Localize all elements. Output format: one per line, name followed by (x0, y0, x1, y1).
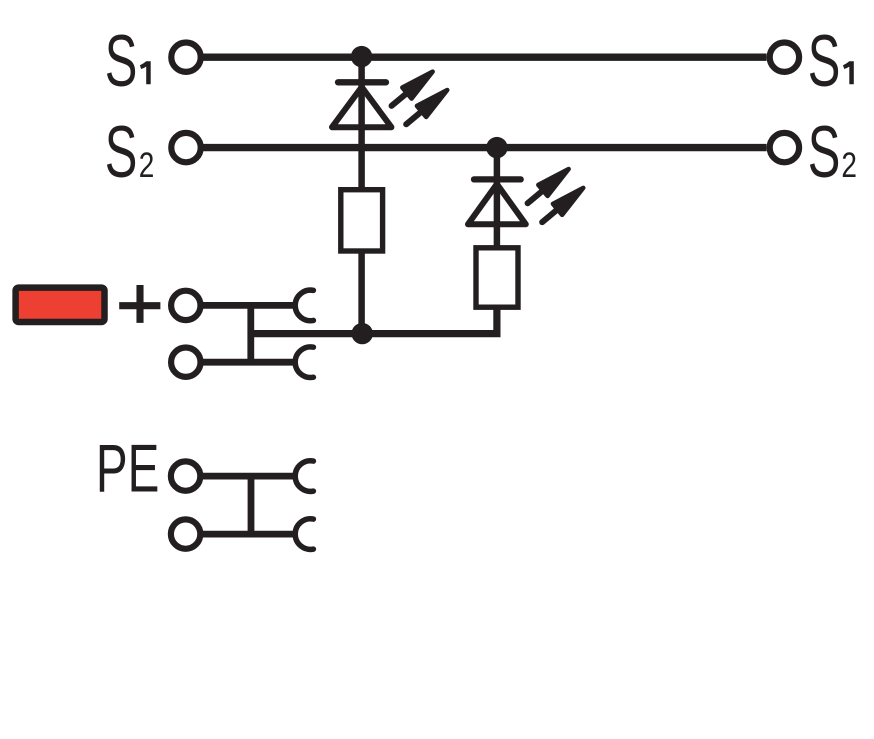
label S1 right (808, 21, 854, 102)
svg-text:2: 2 (139, 145, 155, 185)
junction dot node bottom (352, 323, 373, 344)
terminal circle plus bottom (171, 348, 200, 377)
wire S2 horizontal (204, 144, 767, 151)
wire plus top to clamp (201, 302, 297, 309)
wire LED2 vertical branch (494, 148, 501, 249)
plus sign (119, 285, 160, 323)
terminal circle PE top (171, 461, 200, 490)
terminal circle S1 left (171, 43, 200, 72)
wire resistor R1 to node (358, 248, 365, 334)
LED D1 triangle (332, 87, 391, 127)
wire LED1 vertical branch (358, 57, 365, 192)
LED D2 light arrow 2 (538, 182, 588, 227)
terminal circle S2 left (171, 133, 200, 162)
clamp contact plus top (295, 290, 313, 321)
wire plus vertical bus (247, 305, 254, 362)
label S2 left (105, 112, 155, 193)
terminal circle S2 right (770, 133, 799, 162)
resistor R1 (341, 190, 383, 251)
junction dot node S1/D1 (351, 46, 372, 67)
resistor R2 (476, 248, 518, 307)
LED D2 cathode bar (474, 176, 521, 182)
wire middle bus to node (251, 330, 365, 337)
label S1 left (105, 21, 151, 102)
LED D1 cathode bar (338, 79, 386, 85)
LED D1 light arrow 2 (402, 84, 452, 129)
terminal circle PE bottom (171, 519, 200, 548)
svg-text:S: S (808, 21, 841, 102)
red marker box (16, 288, 105, 322)
wire plus bottom to clamp (201, 359, 297, 366)
wire PE top to clamp (201, 473, 296, 480)
wire PE vertical bus (248, 476, 255, 534)
junction dot node S2/D2 (486, 137, 507, 158)
clamp contact PE top (295, 461, 313, 492)
clamp contact PE bottom (295, 519, 313, 550)
wire PE bottom to clamp (201, 531, 296, 538)
terminal circle plus top (171, 291, 200, 320)
label S2 right (808, 112, 857, 193)
svg-text:S: S (105, 21, 138, 102)
clamp contact plus bottom (295, 347, 313, 378)
svg-text:S: S (105, 112, 138, 193)
wire S1 horizontal (204, 54, 767, 61)
svg-text:2: 2 (841, 145, 857, 185)
LED D2 light arrow 1 (523, 163, 573, 208)
svg-text:PE: PE (96, 431, 159, 506)
terminal circle S1 right (770, 43, 799, 72)
wire R2 bottom corner to node (362, 304, 497, 334)
svg-text:S: S (808, 112, 841, 193)
LED D2 triangle (468, 184, 526, 224)
LED D1 light arrow 1 (387, 66, 437, 111)
